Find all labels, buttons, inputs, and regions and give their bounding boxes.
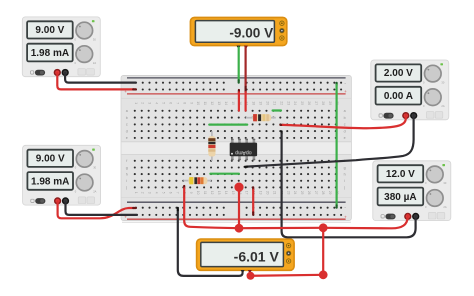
svg-text:380 µA: 380 µA: [384, 192, 416, 203]
svg-text:4: 4: [155, 192, 159, 194]
multimeter M2 bottom: [197, 239, 295, 274]
resistor R2 vertical col12: [208, 131, 215, 161]
wire green jumper row h col12-col16: [210, 173, 239, 175]
svg-text:19: 19: [259, 101, 263, 105]
node D1 junction: [234, 183, 243, 192]
svg-text:28: 28: [321, 101, 325, 105]
svg-text:2: 2: [141, 192, 145, 194]
top rail red line: [127, 93, 346, 95]
row letter labels: [125, 109, 345, 190]
wire red node D1 to node D2: [238, 187, 240, 228]
svg-text:12.0 V: 12.0 V: [386, 169, 415, 180]
wire black M2 black probe to bottom rail minus: [178, 208, 243, 276]
svg-text:5: 5: [162, 102, 166, 104]
svg-text:27: 27: [314, 101, 318, 105]
svg-text:9: 9: [189, 192, 193, 194]
svg-text:21: 21: [272, 191, 276, 195]
bottom rail red line: [127, 218, 346, 220]
wire red top rail plus to row a col16: [238, 90, 240, 111]
svg-text:20: 20: [265, 101, 269, 105]
rail polarity signs: [124, 81, 347, 220]
multimeter M2 red probe: [248, 270, 252, 274]
power supply P2 left-middle: [23, 145, 101, 205]
main grid holes: [134, 110, 337, 189]
wire red P1 to top rail plus: [57, 73, 136, 89]
svg-text:e: e: [344, 136, 346, 140]
svg-text:4: 4: [155, 102, 159, 104]
svg-text:+: +: [344, 89, 347, 94]
breadboard body: [121, 75, 351, 222]
node D4 junction: [319, 270, 328, 279]
svg-text:opAmp: opAmp: [235, 149, 252, 155]
svg-text:j: j: [125, 186, 127, 190]
wire green jumper row a col21-col22: [273, 109, 281, 111]
resistor R1 horizontal row b: [246, 114, 276, 121]
multimeter M2 black probe: [241, 270, 245, 274]
svg-text:10: 10: [196, 191, 200, 195]
resistor R3 horizontal row i: [183, 177, 211, 184]
svg-text:13: 13: [217, 191, 221, 195]
svg-text:d: d: [126, 129, 128, 133]
svg-text:9: 9: [189, 102, 193, 104]
svg-text:1: 1: [134, 192, 138, 194]
svg-text:28: 28: [321, 191, 325, 195]
svg-text:+: +: [344, 214, 347, 219]
svg-text:23: 23: [286, 191, 290, 195]
multimeter M1 red probe: [244, 46, 248, 50]
wire red node D3 to P4 plus: [323, 215, 407, 228]
wire red node D4 to M2 red probe: [251, 275, 324, 276]
svg-text:d: d: [344, 129, 346, 133]
svg-text:21: 21: [272, 101, 276, 105]
svg-text:1.98 mA: 1.98 mA: [31, 176, 69, 187]
svg-text:25: 25: [300, 101, 304, 105]
svg-text:19: 19: [259, 191, 263, 195]
svg-text:12: 12: [210, 101, 214, 105]
power supply P3 right-top: [371, 60, 449, 120]
svg-text:20: 20: [265, 191, 269, 195]
node D2 junction: [235, 224, 244, 233]
wire green top rail minus to bottom rail minus: [336, 83, 338, 208]
bottom rail blue line: [127, 201, 346, 203]
svg-text:5: 5: [162, 192, 166, 194]
svg-text:h: h: [126, 172, 128, 176]
wire red row j col18 to bottom rail plus: [252, 187, 254, 214]
wire red node D2 to node D3: [239, 227, 323, 230]
svg-text:7: 7: [175, 192, 179, 194]
svg-text:j: j: [343, 186, 345, 190]
wire red row j col8 to node D2: [184, 186, 239, 228]
svg-text:7: 7: [175, 102, 179, 104]
node D3 junction: [319, 223, 328, 232]
svg-text:e: e: [126, 136, 128, 140]
svg-text:18: 18: [252, 101, 256, 105]
svg-text:11: 11: [203, 102, 207, 106]
svg-text:8: 8: [182, 102, 186, 104]
svg-text:b: b: [126, 116, 128, 120]
op-amp U1: [230, 139, 257, 161]
wire red M1 red probe to row a col17: [245, 48, 247, 111]
svg-text:3: 3: [148, 102, 152, 104]
svg-text:12: 12: [210, 191, 214, 195]
svg-text:23: 23: [286, 101, 290, 105]
svg-text:10: 10: [196, 101, 200, 105]
svg-text:15: 15: [231, 191, 235, 195]
wire green jumper row c col12-col17: [209, 123, 247, 125]
wire black row d col22 to P4 minus: [282, 131, 416, 237]
svg-text:g: g: [344, 166, 346, 170]
svg-text:14: 14: [224, 101, 228, 105]
svg-text:a: a: [126, 109, 128, 113]
svg-text:a: a: [344, 109, 346, 113]
svg-text:24: 24: [293, 191, 297, 195]
svg-text:15: 15: [231, 101, 235, 105]
svg-text:2: 2: [141, 102, 145, 104]
svg-text:3: 3: [148, 192, 152, 194]
wire black P2 to bottom rail plus: [66, 201, 138, 215]
column number labels: [134, 101, 339, 194]
node D5 junction on M2 red probe: [247, 272, 255, 280]
svg-text:1: 1: [134, 102, 138, 104]
wire green M1 black probe to top rail minus: [238, 48, 240, 83]
svg-text:14: 14: [224, 191, 228, 195]
svg-text:b: b: [344, 116, 346, 120]
svg-text:13: 13: [217, 101, 221, 105]
wire black P3 minus to row g col17: [245, 115, 414, 167]
svg-text:9.00 V: 9.00 V: [36, 154, 65, 165]
svg-text:c: c: [126, 123, 128, 127]
wire red P2 to bottom rail minus: [58, 201, 136, 218]
svg-text:h: h: [344, 172, 346, 176]
top rail blue line: [127, 77, 346, 79]
wire red node D3 to node D4: [322, 228, 324, 275]
svg-text:25: 25: [300, 191, 304, 195]
svg-text:11: 11: [203, 191, 207, 195]
svg-text:c: c: [344, 123, 346, 127]
svg-text:24: 24: [293, 101, 297, 105]
svg-text:1.98 mA: 1.98 mA: [31, 48, 69, 59]
svg-text:g: g: [126, 166, 128, 170]
rail holes: [135, 82, 342, 216]
svg-text:27: 27: [314, 191, 318, 195]
svg-text:0.00 A: 0.00 A: [384, 91, 413, 102]
svg-text:29: 29: [328, 101, 332, 105]
wire red row c col22 to P3 plus: [280, 115, 405, 128]
svg-text:f: f: [126, 159, 127, 163]
svg-text:29: 29: [328, 191, 332, 195]
svg-text:9.00 V: 9.00 V: [35, 25, 64, 36]
svg-text:-6.01 V: -6.01 V: [234, 248, 280, 264]
svg-text:-9.00 V: -9.00 V: [229, 25, 273, 40]
svg-text:6: 6: [168, 102, 172, 104]
wire black P1 to top rail minus: [65, 73, 136, 83]
svg-text:26: 26: [307, 191, 311, 195]
svg-text:17: 17: [245, 191, 249, 195]
power supply P1 top-left: [22, 17, 100, 77]
svg-text:22: 22: [279, 101, 283, 105]
multimeter M1 black probe: [237, 46, 241, 50]
svg-text:2.00 V: 2.00 V: [384, 68, 413, 79]
multimeter M1 top: [190, 17, 286, 49]
power supply P4 right-bottom: [373, 161, 451, 221]
svg-text:6: 6: [168, 192, 172, 194]
svg-text:26: 26: [307, 101, 311, 105]
